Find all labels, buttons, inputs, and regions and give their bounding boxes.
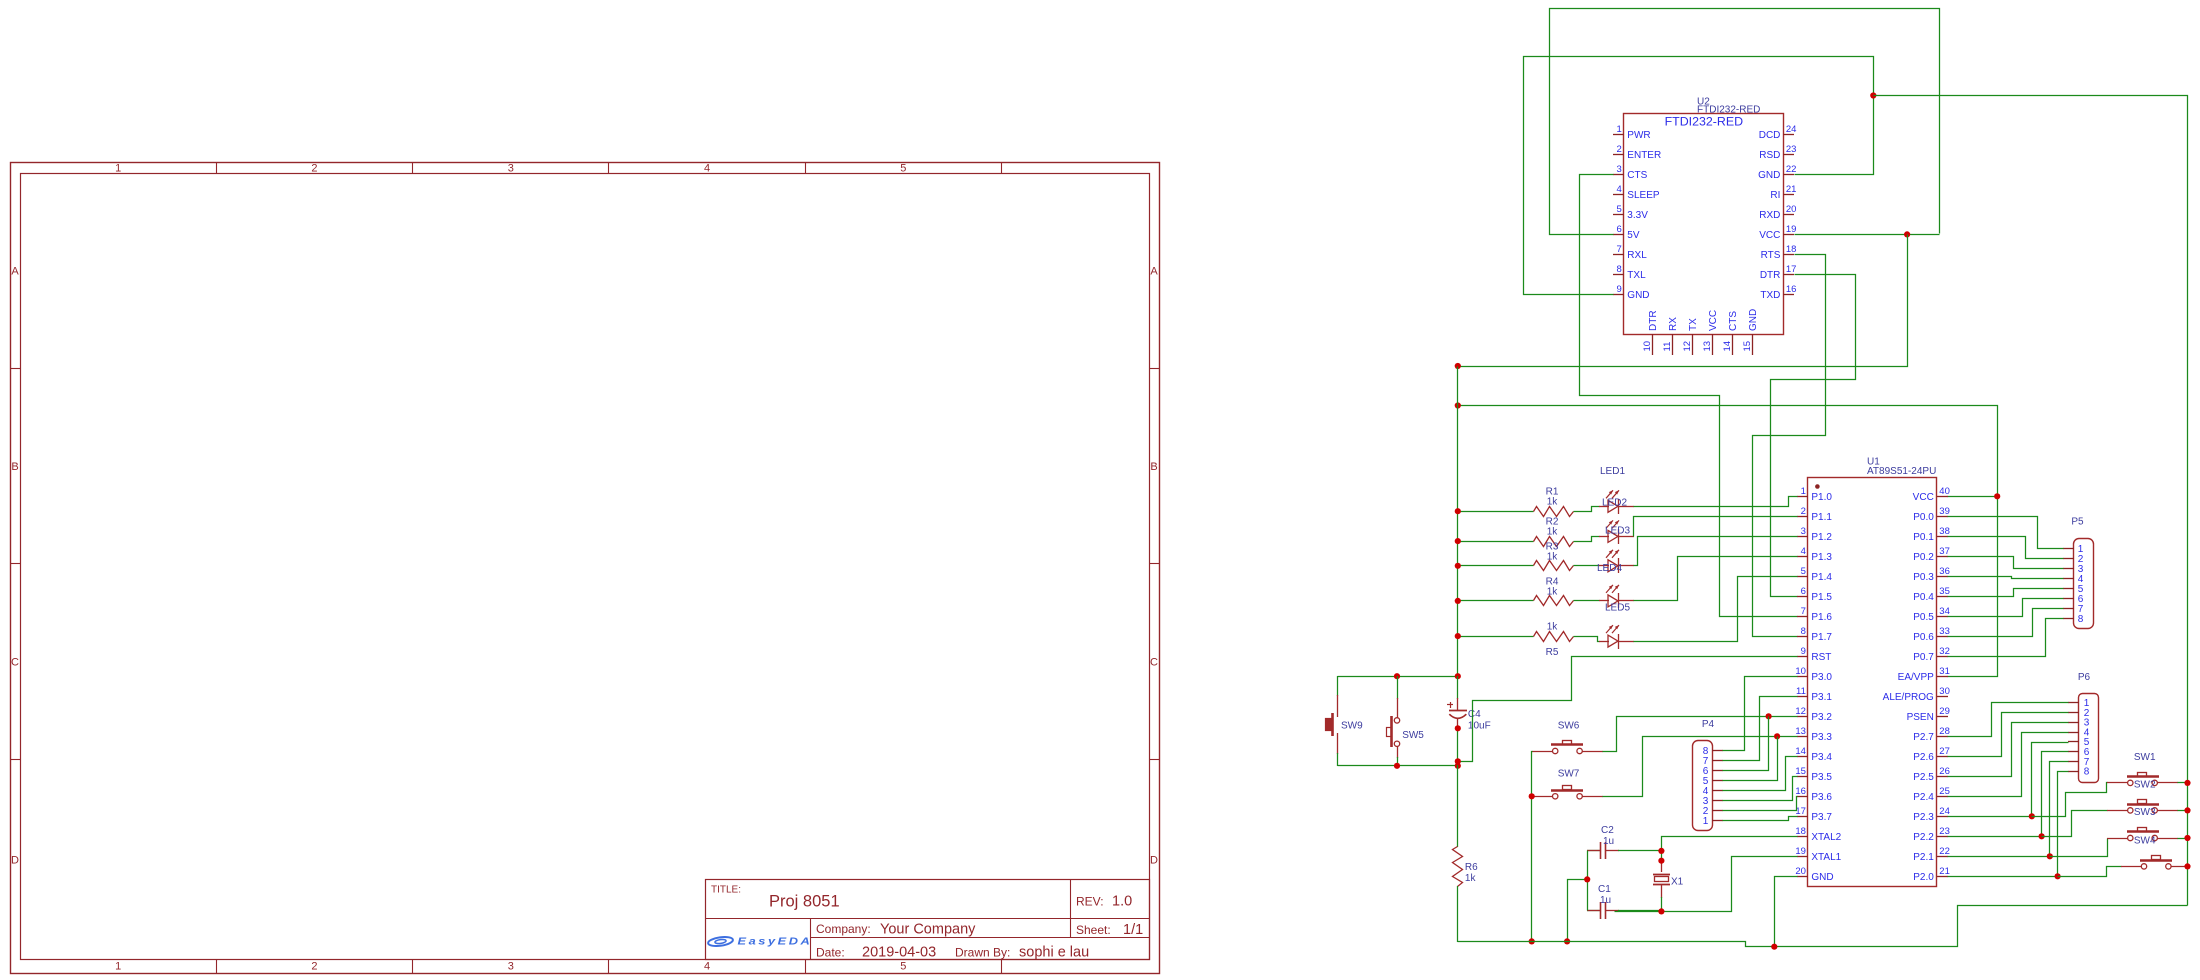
pin 20 GND xyxy=(1797,876,1808,878)
P5 pin 7 xyxy=(2063,608,2074,610)
junction top rail SW5 xyxy=(1394,673,1400,679)
svg-text:38: 38 xyxy=(1939,526,1950,537)
capacitor C2 1u xyxy=(1587,842,1662,859)
P4 pin 5 xyxy=(1712,780,1723,782)
svg-text:20: 20 xyxy=(1795,866,1806,877)
junction on VCC bus xyxy=(1455,598,1461,604)
pin 14 CTS (bottom) xyxy=(1732,334,1734,355)
P4 pin 6 xyxy=(1712,770,1723,772)
pin 21 RI xyxy=(1783,194,1794,196)
svg-text:B: B xyxy=(1150,461,1157,473)
svg-text:PSEN: PSEN xyxy=(1907,712,1934,723)
svg-text:P0.0: P0.0 xyxy=(1913,512,1934,523)
svg-text:DTR: DTR xyxy=(1760,270,1781,281)
pin 3 P1.2 xyxy=(1797,536,1808,538)
connector P4 xyxy=(1693,741,1713,831)
svg-text:XTAL1: XTAL1 xyxy=(1811,852,1841,863)
wire P3.1 to P4.7 xyxy=(1723,697,1798,761)
junction top rail bus xyxy=(1455,673,1461,679)
wire RST tap xyxy=(1458,657,1798,762)
svg-text:Date:: Date: xyxy=(816,946,845,960)
svg-text:C: C xyxy=(11,657,19,669)
svg-text:RST: RST xyxy=(1811,652,1831,663)
svg-text:1k: 1k xyxy=(1547,497,1559,508)
svg-text:19: 19 xyxy=(1795,846,1806,857)
pin 6 P1.5 xyxy=(1797,596,1808,598)
svg-text:SW6: SW6 xyxy=(1558,721,1580,732)
title block row divider xyxy=(705,918,1150,920)
junction RST tap xyxy=(1455,758,1461,764)
svg-text:23: 23 xyxy=(1939,826,1950,837)
svg-text:2019-04-03: 2019-04-03 xyxy=(862,945,936,961)
svg-text:RSD: RSD xyxy=(1759,150,1780,161)
pin 9 GND xyxy=(1613,294,1624,296)
resistor R4 1k xyxy=(1534,596,1574,606)
svg-text:GND: GND xyxy=(1627,290,1649,301)
EasyEDA logo xyxy=(708,936,813,948)
svg-text:P3.0: P3.0 xyxy=(1811,672,1832,683)
junction P3.2/P4 riser xyxy=(1766,713,1772,719)
svg-text:20: 20 xyxy=(1786,204,1797,215)
wire R2 to LED2 xyxy=(1574,537,1600,542)
junction SW2 rail xyxy=(2184,807,2190,813)
sheet inner border xyxy=(21,174,1150,960)
pin 10 P3.0 xyxy=(1797,676,1808,678)
svg-text:3: 3 xyxy=(508,163,514,175)
P6 pin 5 xyxy=(2068,741,2079,743)
svg-text:1u: 1u xyxy=(1603,836,1614,847)
wire SW9 bottom xyxy=(1337,753,1339,766)
svg-text:ALE/PROG: ALE/PROG xyxy=(1883,692,1934,703)
pin 28 P2.7 xyxy=(1937,736,1948,738)
junction SW4 rail xyxy=(2184,863,2190,869)
svg-text:B: B xyxy=(11,461,18,473)
pin 12 P3.2 xyxy=(1797,716,1808,718)
svg-text:Sheet:: Sheet: xyxy=(1076,923,1111,937)
wire VCC bus vertical xyxy=(1457,367,1459,677)
wire P0.3 to P5.4 xyxy=(1948,577,2064,579)
svg-text:P1.2: P1.2 xyxy=(1811,532,1832,543)
row tick xyxy=(10,368,21,370)
P4 pin 8 xyxy=(1712,750,1723,752)
title block company/date divider xyxy=(810,937,1150,939)
svg-text:P1.3: P1.3 xyxy=(1811,552,1832,563)
svg-text:32: 32 xyxy=(1939,646,1950,657)
wire P4.5 to P3.3 xyxy=(1723,737,1778,781)
P4 pin 4 xyxy=(1712,790,1723,792)
svg-text:A: A xyxy=(1150,266,1158,278)
P6 pin 4 xyxy=(2068,732,2079,734)
wire SW4 to ground rail xyxy=(2187,866,2189,868)
pin 4 P1.3 xyxy=(1797,556,1808,558)
wire SW7 to P3.3 xyxy=(1603,737,1798,797)
pin 6 5V xyxy=(1613,234,1624,236)
P6 pin 6 xyxy=(2068,751,2079,753)
svg-text:VCC: VCC xyxy=(1913,492,1934,503)
wire reset bottom rail xyxy=(1338,765,1458,767)
pin 27 P2.6 xyxy=(1937,756,1948,758)
svg-text:1: 1 xyxy=(1703,816,1709,827)
LED LED5 xyxy=(1599,641,1609,643)
switch SW7 xyxy=(1532,786,1603,800)
wire SW2 to ground rail xyxy=(2178,810,2188,812)
pin 29 PSEN xyxy=(1937,716,1948,718)
svg-text:A: A xyxy=(11,266,19,278)
P5 pin 4 xyxy=(2063,578,2074,580)
pin 8 P1.7 xyxy=(1797,636,1808,638)
svg-text:35: 35 xyxy=(1939,586,1950,597)
svg-text:REV:: REV: xyxy=(1076,895,1104,909)
pin 33 P0.6 xyxy=(1937,636,1948,638)
U1 pin1 marker xyxy=(1815,484,1820,489)
LED LED2 xyxy=(1599,536,1609,538)
wire XTAL2 to X1 xyxy=(1662,837,1798,862)
svg-text:P2.2: P2.2 xyxy=(1913,832,1934,843)
svg-text:DCD: DCD xyxy=(1759,130,1781,141)
column tick xyxy=(805,162,807,174)
wire P4.4 to P3.4 xyxy=(1723,757,1798,791)
svg-text:3: 3 xyxy=(508,961,514,973)
wire P2.2 to SW2 xyxy=(2042,811,2108,837)
svg-text:36: 36 xyxy=(1939,566,1950,577)
wire LED5 to P1.4 xyxy=(1634,577,1798,642)
junction X1 bottom xyxy=(1658,908,1664,914)
svg-text:34: 34 xyxy=(1939,606,1950,617)
svg-text:P2.5: P2.5 xyxy=(1913,772,1934,783)
wire R4 to LED4 xyxy=(1574,600,1600,602)
switch SW5 xyxy=(1387,676,1400,766)
svg-text:P2.4: P2.4 xyxy=(1913,792,1934,803)
svg-text:23: 23 xyxy=(1786,144,1797,155)
wire P0.5 to P5.6 xyxy=(1948,599,2064,617)
svg-text:DTR: DTR xyxy=(1648,310,1659,331)
pin 34 P0.5 xyxy=(1937,616,1948,618)
svg-text:Your Company: Your Company xyxy=(880,922,976,938)
wire P2.1 row to P6.7 xyxy=(1948,856,2050,858)
pin 20 RXD xyxy=(1783,214,1794,216)
wire R5 to LED5 xyxy=(1574,637,1600,642)
svg-text:1k: 1k xyxy=(1547,527,1559,538)
svg-text:10: 10 xyxy=(1795,666,1806,677)
svg-text:P6: P6 xyxy=(2078,672,2091,683)
wire U1 GND20 to rail xyxy=(1775,877,1798,947)
svg-text:9: 9 xyxy=(1617,284,1622,295)
svg-text:16: 16 xyxy=(1786,284,1797,295)
junction SW3 rail xyxy=(2184,835,2190,841)
svg-text:X1: X1 xyxy=(1671,877,1684,888)
pin 23 P2.2 xyxy=(1937,836,1948,838)
svg-text:TXL: TXL xyxy=(1627,270,1646,281)
svg-text:P2.6: P2.6 xyxy=(1913,752,1934,763)
capacitor C4 10uF xyxy=(1447,676,1467,762)
pin 4 SLEEP xyxy=(1613,194,1624,196)
junction U1 VCC riser xyxy=(1994,493,2000,499)
pin 1 P1.0 xyxy=(1797,496,1808,498)
junction X1 top lead xyxy=(1658,858,1664,864)
wire bus to R5 xyxy=(1458,636,1534,638)
svg-text:PWR: PWR xyxy=(1627,130,1650,141)
wire bus to R4 xyxy=(1458,600,1534,602)
P5 pin 1 xyxy=(2063,548,2074,550)
pin 15 P3.5 xyxy=(1797,776,1808,778)
svg-text:7: 7 xyxy=(1801,606,1806,617)
svg-text:3: 3 xyxy=(1801,526,1806,537)
svg-text:P2.3: P2.3 xyxy=(1913,812,1934,823)
svg-text:SLEEP: SLEEP xyxy=(1627,190,1660,201)
svg-text:RXD: RXD xyxy=(1759,210,1780,221)
junction bus top xyxy=(1455,363,1461,369)
pin 21 P2.0 xyxy=(1937,876,1948,878)
svg-text:5: 5 xyxy=(900,163,906,175)
wire P2.0 to SW4 xyxy=(2058,867,2122,877)
junction C4 bottom xyxy=(1455,725,1461,731)
title block logo cell divider xyxy=(810,918,812,960)
svg-text:R5: R5 xyxy=(1546,647,1559,658)
wire P0.0 to P5.1 xyxy=(1948,517,2064,549)
pin 5 P1.4 xyxy=(1797,576,1808,578)
junction on VCC bus xyxy=(1455,508,1461,514)
P6 pin 1 xyxy=(2068,702,2079,704)
svg-text:P3.2: P3.2 xyxy=(1811,712,1832,723)
svg-text:13: 13 xyxy=(1795,726,1806,737)
svg-text:P1.6: P1.6 xyxy=(1811,612,1832,623)
pin 14 P3.4 xyxy=(1797,756,1808,758)
svg-text:1k: 1k xyxy=(1465,873,1477,884)
wire VCC bus riser line to U1 xyxy=(1458,406,1998,677)
svg-text:10uF: 10uF xyxy=(1468,721,1491,732)
wire P0.2 to P5.3 xyxy=(1948,557,2064,569)
pin 15 GND (bottom) xyxy=(1752,334,1754,355)
wire P2.4 to P6.4 xyxy=(1948,733,2069,797)
svg-text:3: 3 xyxy=(1617,164,1622,175)
IC U1 body xyxy=(1808,478,1937,887)
svg-text:CTS: CTS xyxy=(1728,311,1739,331)
pin 11 RX (bottom) xyxy=(1672,334,1674,355)
svg-text:P0.5: P0.5 xyxy=(1913,612,1934,623)
svg-text:RX: RX xyxy=(1668,317,1679,331)
svg-text:1u: 1u xyxy=(1600,895,1611,906)
svg-text:2: 2 xyxy=(311,163,317,175)
svg-text:29: 29 xyxy=(1939,706,1950,717)
svg-text:8: 8 xyxy=(2084,767,2090,778)
svg-text:LED5: LED5 xyxy=(1605,603,1630,614)
svg-text:15: 15 xyxy=(1742,341,1753,352)
svg-text:24: 24 xyxy=(1786,124,1797,135)
svg-text:3.3V: 3.3V xyxy=(1627,210,1648,221)
pin 22 GND xyxy=(1783,174,1794,176)
svg-text:11: 11 xyxy=(1662,342,1673,352)
svg-text:P3.4: P3.4 xyxy=(1811,752,1832,763)
P5 pin 5 xyxy=(2063,588,2074,590)
pin 38 P0.1 xyxy=(1937,536,1948,538)
P5 pin 2 xyxy=(2063,558,2074,560)
wire SW7 to column xyxy=(1532,796,1533,798)
svg-text:FTDI232-RED: FTDI232-RED xyxy=(1665,115,1744,129)
svg-text:P1.7: P1.7 xyxy=(1811,632,1832,643)
wire P4.1 to P3.7 xyxy=(1723,817,1798,821)
svg-text:GND: GND xyxy=(1811,872,1833,883)
pin 24 P2.3 xyxy=(1937,816,1948,818)
junction P2.0 xyxy=(2055,873,2061,879)
junction GND north xyxy=(1870,92,1876,98)
junction P2.1 xyxy=(2047,853,2053,859)
svg-text:1: 1 xyxy=(115,961,121,973)
wire 5V net: FTDI pin6 up over top to VCC xyxy=(1550,9,1940,235)
pin 18 RTS xyxy=(1783,254,1794,256)
wire GND to right rail xyxy=(1874,96,2188,906)
svg-text:R6: R6 xyxy=(1465,862,1478,873)
pin 37 P0.2 xyxy=(1937,556,1948,558)
svg-text:SW7: SW7 xyxy=(1558,768,1580,779)
wire XTAL1 to X1 bottom xyxy=(1615,857,1798,912)
junction bottom rail SW5 xyxy=(1394,763,1400,769)
svg-text:18: 18 xyxy=(1786,244,1797,255)
pin 36 P0.3 xyxy=(1937,576,1948,578)
pin 16 P3.6 xyxy=(1797,796,1808,798)
pin 13 VCC (bottom) xyxy=(1712,334,1714,355)
svg-text:31: 31 xyxy=(1939,666,1950,677)
pin 39 P0.0 xyxy=(1937,516,1948,518)
pin 35 P0.4 xyxy=(1937,596,1948,598)
wire SW6 left column xyxy=(1532,752,1533,942)
svg-text:37: 37 xyxy=(1939,546,1950,557)
junction P3.3/P4 riser xyxy=(1774,733,1780,739)
svg-text:Drawn By:: Drawn By: xyxy=(955,946,1010,960)
junction X1 top C2 xyxy=(1658,848,1664,854)
pin 32 P0.7 xyxy=(1937,656,1948,658)
P6 pin 8 xyxy=(2068,771,2079,773)
svg-text:P1.1: P1.1 xyxy=(1811,512,1832,523)
wire VCC19 row xyxy=(1795,234,1940,236)
wire bus to R1 xyxy=(1458,511,1534,513)
row tick xyxy=(10,759,21,761)
svg-text:7: 7 xyxy=(1617,244,1622,255)
switch SW6 xyxy=(1532,741,1603,754)
connector P6 xyxy=(2079,694,2099,783)
P5 pin 8 xyxy=(2063,618,2074,620)
junction GND20 rail xyxy=(1771,944,1777,950)
junction VCC19 xyxy=(1904,231,1910,237)
wire P3.0 to P4.8 xyxy=(1723,677,1798,751)
svg-text:P1.4: P1.4 xyxy=(1811,572,1832,583)
wire P2.0 row to P6.8 xyxy=(1948,876,2058,878)
svg-text:P0.3: P0.3 xyxy=(1913,572,1934,583)
wire DTR to P1.5 xyxy=(1771,275,1856,597)
svg-text:19: 19 xyxy=(1786,224,1797,235)
svg-text:8: 8 xyxy=(2078,614,2084,625)
svg-text:8: 8 xyxy=(1617,264,1622,275)
resistor R1 1k xyxy=(1534,507,1574,517)
svg-text:5: 5 xyxy=(900,961,906,973)
svg-text:sophi e lau: sophi e lau xyxy=(1019,945,1089,961)
svg-text:P0.1: P0.1 xyxy=(1913,532,1934,543)
svg-text:13: 13 xyxy=(1702,341,1713,352)
svg-text:4: 4 xyxy=(1801,546,1806,557)
svg-text:4: 4 xyxy=(1617,184,1622,195)
svg-text:5: 5 xyxy=(1801,566,1806,577)
pin 5 3.3V xyxy=(1613,214,1624,216)
svg-text:Proj 8051: Proj 8051 xyxy=(769,893,840,911)
sheet outer border xyxy=(11,163,1160,974)
wire P4.6 to P3.2 xyxy=(1723,717,1769,771)
pin 2 P1.1 xyxy=(1797,516,1808,518)
wire P2.3 row to P6.5 xyxy=(1948,816,2032,818)
svg-text:1: 1 xyxy=(1617,124,1622,135)
crystal X1 xyxy=(1653,861,1670,912)
junction bottom rail bus xyxy=(1455,763,1461,769)
svg-text:1/1: 1/1 xyxy=(1123,922,1143,938)
svg-text:21: 21 xyxy=(1939,866,1950,877)
wire R3 to LED3 xyxy=(1574,565,1600,567)
title block outline xyxy=(706,880,1150,960)
svg-text:2: 2 xyxy=(1617,144,1622,155)
pin 17 DTR xyxy=(1783,274,1794,276)
column tick xyxy=(216,162,218,174)
resistor R5 1k xyxy=(1534,632,1574,642)
svg-text:1k: 1k xyxy=(1547,586,1559,597)
svg-text:CTS: CTS xyxy=(1627,170,1647,181)
svg-text:11: 11 xyxy=(1796,686,1806,697)
wire P2.7 to P6.1 xyxy=(1948,703,2069,737)
pin 8 TXL xyxy=(1613,274,1624,276)
junction P2.2 xyxy=(2039,833,2045,839)
svg-text:22: 22 xyxy=(1786,164,1797,175)
svg-text:RTS: RTS xyxy=(1761,250,1781,261)
switch SW9 xyxy=(1326,676,1338,754)
pin 3 CTS xyxy=(1613,174,1624,176)
svg-text:1.0: 1.0 xyxy=(1112,894,1132,910)
pin 19 VCC xyxy=(1783,234,1794,236)
pin 2 ENTER xyxy=(1613,154,1624,156)
P5 pin 3 xyxy=(2063,568,2074,570)
svg-text:SW3: SW3 xyxy=(2134,807,2156,818)
wire LED2 to P1.1 xyxy=(1634,517,1798,537)
svg-text:1k: 1k xyxy=(1547,622,1559,633)
svg-text:SW1: SW1 xyxy=(2134,752,2156,763)
wire P4.3 to P3.5 xyxy=(1723,777,1798,801)
svg-text:SW9: SW9 xyxy=(1341,721,1363,732)
svg-text:P1.0: P1.0 xyxy=(1811,492,1832,503)
svg-text:TXD: TXD xyxy=(1760,290,1780,301)
switch SW2 xyxy=(2107,800,2178,814)
svg-text:P3.6: P3.6 xyxy=(1811,792,1832,803)
pin 7 P1.6 xyxy=(1797,616,1808,618)
pin 12 TX (bottom) xyxy=(1692,334,1694,355)
junction SW1 rail xyxy=(2184,780,2190,786)
svg-text:P0.2: P0.2 xyxy=(1913,552,1934,563)
wire bus to R3 xyxy=(1458,565,1534,567)
junction P2.3 xyxy=(2029,813,2035,819)
wire P0.4 to P5.5 xyxy=(1948,589,2064,597)
wire SW3 to ground rail xyxy=(2178,838,2188,840)
wire bus to R2 xyxy=(1458,541,1534,543)
junction SW7 column xyxy=(1529,793,1535,799)
svg-text:18: 18 xyxy=(1795,826,1806,837)
svg-text:LED3: LED3 xyxy=(1605,526,1630,537)
column tick xyxy=(412,162,414,174)
LED LED4 xyxy=(1599,600,1609,602)
svg-text:VCC: VCC xyxy=(1708,310,1719,331)
pin 26 P2.5 xyxy=(1937,776,1948,778)
wire CTS to P1.6 xyxy=(1580,175,1798,617)
svg-text:1: 1 xyxy=(115,163,121,175)
pin 1 PWR xyxy=(1613,134,1624,136)
svg-text:2: 2 xyxy=(311,961,317,973)
switch SW3 xyxy=(2107,828,2178,841)
svg-text:12: 12 xyxy=(1682,341,1693,352)
wire P2.3 to SW1 xyxy=(2032,783,2108,817)
svg-text:P0.7: P0.7 xyxy=(1913,652,1934,663)
